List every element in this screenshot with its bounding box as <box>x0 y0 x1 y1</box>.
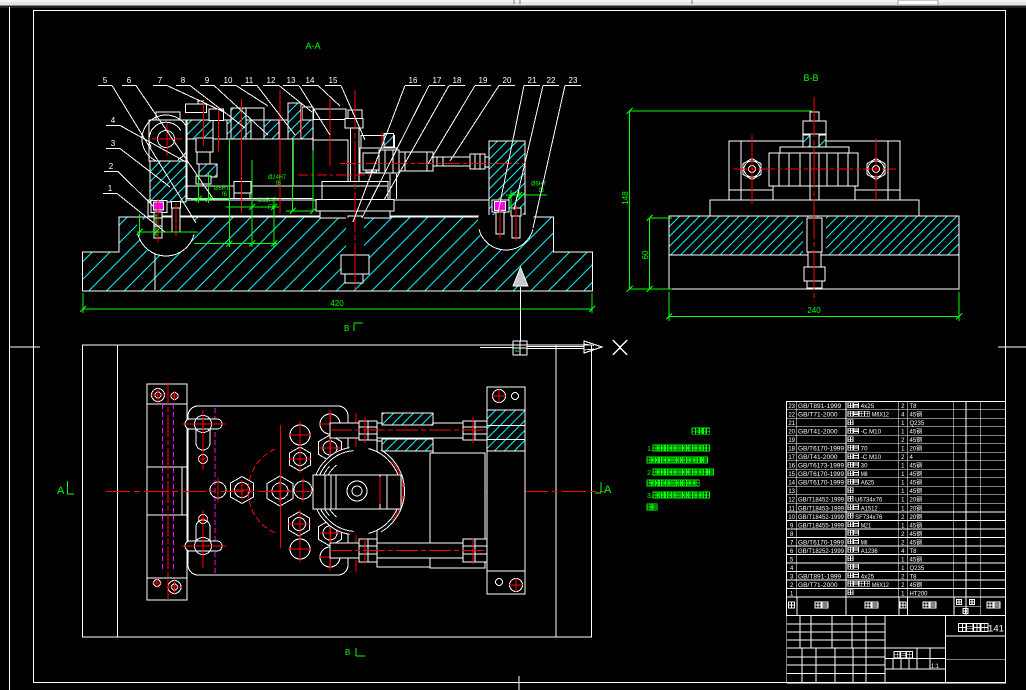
svg-text:M21: M21 <box>861 523 872 529</box>
A-A bottom plate <box>148 200 523 216</box>
bolt centerlines <box>157 199 159 242</box>
svg-text:420: 420 <box>330 299 344 308</box>
svg-text:20: 20 <box>503 76 512 85</box>
svg-text:19: 19 <box>788 438 795 444</box>
UCS icon <box>513 341 527 355</box>
B-B stud passage <box>803 217 826 254</box>
svg-text:4x25: 4x25 <box>861 574 875 580</box>
svg-text:60: 60 <box>641 250 650 259</box>
B-B base slab lower <box>669 255 959 289</box>
svg-text:20钢: 20钢 <box>910 496 923 504</box>
svg-text:GB/T6170-1999: GB/T6170-1999 <box>798 447 845 453</box>
svg-text:M6: M6 <box>861 540 868 546</box>
B-B dim 240 <box>668 292 670 321</box>
svg-text:f6: f6 <box>222 192 228 198</box>
table header row <box>787 597 1006 616</box>
A-A base plate (hatched) <box>83 217 593 291</box>
svg-text:A: A <box>57 485 65 497</box>
plan workpiece circle <box>313 447 401 535</box>
A-A hold-down bolts left <box>151 201 167 213</box>
svg-text:A1236: A1236 <box>861 549 879 555</box>
svg-text:45钢: 45钢 <box>910 581 923 589</box>
technical notes <box>692 428 710 434</box>
sheet edge line <box>9 7 11 690</box>
svg-text:12: 12 <box>788 498 795 504</box>
svg-text:20钢: 20钢 <box>910 513 923 521</box>
svg-text:2: 2 <box>109 162 114 171</box>
svg-text:18: 18 <box>788 447 795 453</box>
A-A hold-down bolts right <box>492 200 509 212</box>
plan stud cluster <box>210 482 226 498</box>
svg-text:5: 5 <box>103 76 108 85</box>
B-B base slab hatched <box>669 216 959 255</box>
svg-text:16: 16 <box>409 76 418 85</box>
svg-text:141: 141 <box>988 624 1004 634</box>
svg-text:GB/T18252-1999: GB/T18252-1999 <box>798 549 845 555</box>
B-B hex bolts <box>743 159 761 180</box>
svg-text:GB/T891-1999: GB/T891-1999 <box>798 404 842 410</box>
svg-text:11: 11 <box>789 506 796 512</box>
svg-text:15: 15 <box>788 472 795 478</box>
plan body rounded rect <box>188 406 348 575</box>
A-A key blocks <box>234 182 251 193</box>
svg-text:A-A: A-A <box>305 41 320 51</box>
plan stop block <box>147 467 198 515</box>
A-A right shoulder of block <box>313 140 348 186</box>
svg-text:Ø15H7: Ø15H7 <box>258 198 277 204</box>
svg-text:1: 1 <box>108 184 113 193</box>
svg-text:GB/T18452-1999: GB/T18452-1999 <box>798 515 845 521</box>
plan red centerlines <box>106 491 605 493</box>
svg-text:17: 17 <box>788 455 795 461</box>
svg-text:45钢: 45钢 <box>910 470 923 478</box>
svg-text:11: 11 <box>245 76 254 85</box>
svg-text:10: 10 <box>224 76 233 85</box>
A-A tower base tiers <box>316 200 394 212</box>
svg-text:22: 22 <box>788 413 795 419</box>
svg-text:70: 70 <box>861 447 868 453</box>
svg-text:30: 30 <box>861 464 868 470</box>
fold mark bottom <box>518 676 520 690</box>
A-A tower stud below base <box>348 216 362 255</box>
A-A left column upper <box>149 120 186 161</box>
svg-text:B: B <box>345 648 350 657</box>
plan right plate <box>487 387 525 594</box>
plan upright plate A <box>377 441 433 567</box>
svg-text:A1512: A1512 <box>861 506 879 512</box>
svg-text:45钢: 45钢 <box>910 487 923 495</box>
svg-text:GB/T891-1999: GB/T891-1999 <box>798 574 842 580</box>
svg-text:23: 23 <box>788 404 795 410</box>
svg-text:T8: T8 <box>910 404 918 410</box>
svg-text:2.: 2. <box>647 470 653 477</box>
svg-text:Q235: Q235 <box>910 566 925 572</box>
plan bottom clamp bar <box>330 543 470 558</box>
A-A stud passage through base <box>346 218 364 255</box>
svg-text:45钢: 45钢 <box>910 555 923 563</box>
svg-text:45钢: 45钢 <box>910 428 923 436</box>
svg-text:T8: T8 <box>910 574 918 580</box>
A-A spot-face counterbores <box>137 220 195 257</box>
A-A green dimensions <box>139 214 141 236</box>
plan view outer box <box>83 345 592 637</box>
svg-text:F6: F6 <box>268 205 276 211</box>
svg-text:45钢: 45钢 <box>910 436 923 444</box>
A-A horizontal drawbar <box>363 153 379 170</box>
A-A right support block (hatched) <box>489 141 525 216</box>
svg-text:45钢: 45钢 <box>910 538 923 546</box>
B-B top stud <box>810 112 819 147</box>
A-A screw column <box>196 138 213 152</box>
plan top clamp bar <box>330 423 470 438</box>
title block <box>787 615 885 617</box>
svg-text:f6: f6 <box>276 181 282 187</box>
A-A left column lower (hatched) <box>150 161 186 202</box>
fold mark right <box>998 346 1026 348</box>
svg-text:SF734x76: SF734x76 <box>855 515 883 521</box>
plan left plate hidden lines <box>162 404 164 571</box>
svg-text:1.: 1. <box>647 446 653 453</box>
svg-text:12: 12 <box>267 76 276 85</box>
A-A stand legs <box>389 174 391 199</box>
parts list table <box>787 401 1006 597</box>
plan slot <box>313 475 401 509</box>
base parting line <box>154 254 156 290</box>
svg-text:-C M10: -C M10 <box>861 455 882 461</box>
A-A top clamp band <box>187 120 313 139</box>
plan red bolt-circle arc <box>248 449 275 532</box>
svg-text:GB/T41-2000: GB/T41-2000 <box>798 430 838 436</box>
svg-text:7: 7 <box>158 76 163 85</box>
svg-text:15: 15 <box>329 76 338 85</box>
svg-text:45钢: 45钢 <box>910 411 923 419</box>
svg-text:13: 13 <box>287 76 296 85</box>
svg-text:M6X12: M6X12 <box>872 583 890 589</box>
svg-text:GB/T6170-1999: GB/T6170-1999 <box>798 472 845 478</box>
svg-text:14: 14 <box>306 76 315 85</box>
svg-text:9: 9 <box>205 76 210 85</box>
svg-text:GB/T18455-1999: GB/T18455-1999 <box>798 523 845 529</box>
svg-text:4: 4 <box>111 116 116 125</box>
plan T-clamp top <box>185 419 222 429</box>
svg-text:45钢: 45钢 <box>910 530 923 538</box>
svg-text:21: 21 <box>528 76 537 85</box>
B-B dim 60 <box>649 218 651 289</box>
B-B bracket flange <box>710 200 919 216</box>
svg-text:GB/T71-2000: GB/T71-2000 <box>798 583 838 589</box>
centerline left column <box>166 123 168 156</box>
X axis label <box>613 340 627 355</box>
svg-text:240: 240 <box>807 306 821 315</box>
svg-text:19: 19 <box>479 76 488 85</box>
svg-text:22: 22 <box>547 76 556 85</box>
svg-text:45钢: 45钢 <box>910 479 923 487</box>
A-A caps above band <box>186 104 207 113</box>
svg-text:8: 8 <box>181 76 186 85</box>
svg-text:M8: M8 <box>861 472 868 478</box>
fold mark left <box>10 346 41 348</box>
svg-text:GB/T18452-1999: GB/T18452-1999 <box>798 498 845 504</box>
svg-text:10: 10 <box>788 515 795 521</box>
svg-text:20钢: 20钢 <box>910 504 923 512</box>
B-B clamp stack <box>769 153 858 186</box>
svg-text:T8: T8 <box>910 549 918 555</box>
svg-text:148: 148 <box>621 191 630 205</box>
svg-text:U6734x76: U6734x76 <box>855 498 883 504</box>
svg-text:45钢: 45钢 <box>910 521 923 529</box>
A-A tower right gusset <box>361 135 395 148</box>
B-B dim 148 <box>629 111 631 289</box>
svg-text:GB/T18453-1999: GB/T18453-1999 <box>798 506 845 512</box>
plan T-clamp bottom <box>185 541 222 551</box>
A-A tall hatched sleeves <box>231 108 246 139</box>
B-B centerlines <box>813 97 815 302</box>
svg-text:A: A <box>604 484 612 496</box>
svg-text:M6X12: M6X12 <box>872 413 890 419</box>
svg-text:A625: A625 <box>861 481 875 487</box>
svg-text:3: 3 <box>111 139 116 148</box>
svg-text:13: 13 <box>788 489 795 495</box>
toolbar sliver <box>0 0 1026 6</box>
svg-text:GB/T6173-1999: GB/T6173-1999 <box>798 464 845 470</box>
A-A dimension 420 <box>82 293 84 313</box>
B-B bracket <box>729 141 900 200</box>
B-B stud through base <box>807 218 822 252</box>
svg-text:14: 14 <box>788 481 795 487</box>
section arrow B (triangle) <box>513 267 528 286</box>
svg-text:GB/T6170-1999: GB/T6170-1999 <box>798 540 845 546</box>
svg-text:20: 20 <box>788 430 795 436</box>
svg-text:18: 18 <box>453 76 462 85</box>
svg-text:GB/T71-2000: GB/T71-2000 <box>798 413 838 419</box>
svg-text:6: 6 <box>127 76 132 85</box>
A-A tower washer <box>322 182 388 200</box>
A-A central mandrel block <box>187 139 313 186</box>
svg-text:17: 17 <box>433 76 442 85</box>
A-A centerlines <box>203 101 205 146</box>
plan left plate <box>147 384 187 600</box>
svg-text:16: 16 <box>788 464 795 470</box>
svg-text:HT200: HT200 <box>910 591 929 597</box>
svg-text:20钢: 20钢 <box>910 445 923 453</box>
A-A clamp tower <box>314 109 347 120</box>
plan upright plate B <box>430 453 485 568</box>
svg-text:B: B <box>344 324 349 333</box>
A-A step zone below block <box>187 186 313 199</box>
section line B vertical <box>520 287 522 341</box>
svg-text:4x25: 4x25 <box>861 404 875 410</box>
svg-text:3.: 3. <box>647 493 653 500</box>
svg-text:GB/T41-2000: GB/T41-2000 <box>798 455 838 461</box>
svg-text:-C M10: -C M10 <box>861 430 882 436</box>
svg-text:21: 21 <box>788 421 795 427</box>
svg-text:23: 23 <box>569 76 578 85</box>
svg-text:Q235: Q235 <box>910 421 925 427</box>
svg-text:GB/T6170-1999: GB/T6170-1999 <box>798 481 845 487</box>
svg-text:1:1: 1:1 <box>931 664 940 670</box>
svg-text:B-B: B-B <box>803 73 818 83</box>
svg-text:45钢: 45钢 <box>910 462 923 470</box>
A-A right green dim <box>506 194 547 196</box>
svg-text:Ø6H7: Ø6H7 <box>531 182 547 188</box>
